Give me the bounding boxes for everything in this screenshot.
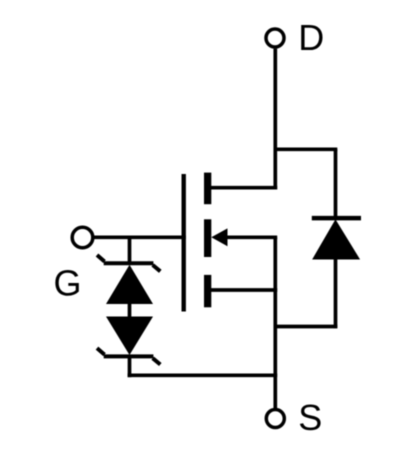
zener Z1 upper [97,255,160,304]
transistor Q1 body arrow [211,228,227,246]
terminal S [266,410,284,428]
terminal D [266,29,284,47]
svg-text:S: S [298,397,322,438]
wire main vertical to S [273,237,277,409]
wire drain-to-diode branch [274,147,338,151]
wire source bar to vertical [211,288,277,292]
transistor Q1 drain bar [204,173,211,205]
transistor Q1 body bar [204,219,211,257]
wire gate horizontal [94,235,186,239]
zener Z2 lower [97,317,160,365]
wire source-to-diode branch [274,325,338,329]
wire drain vertical [273,49,277,190]
svg-text:D: D [298,17,324,58]
wire diode bottom vertical [334,258,338,328]
wire body bar to vertical [225,235,277,239]
transistor Q1 source bar [204,275,211,307]
wire zener bottom vertical [128,356,132,377]
transistor Q1 gate line [181,174,185,312]
wire zener middle connector [128,303,132,318]
wire bottom horizontal [128,373,278,377]
diode D1 body diode [312,218,361,259]
wire diode top vertical [334,149,338,218]
wire drain bar to vertical [211,186,277,190]
wire zener top vertical [128,237,132,263]
svg-text:G: G [54,262,82,303]
terminal G [72,227,93,248]
